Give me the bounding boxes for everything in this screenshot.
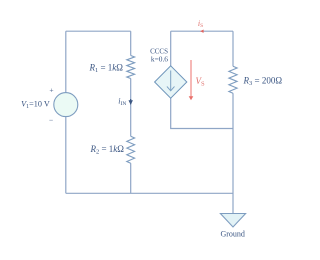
current arrow iIN bbox=[130, 99, 132, 104]
CCCS U1 (diamond dependent source) bbox=[155, 66, 187, 98]
svg-text:k=0.6: k=0.6 bbox=[151, 55, 168, 64]
resistor R1 bbox=[127, 56, 135, 79]
voltage arrow VS (red) bbox=[190, 60, 192, 97]
svg-text:R2 = 1kΩ: R2 = 1kΩ bbox=[89, 144, 124, 156]
wire: top-left horizontal bbox=[66, 30, 131, 32]
wire: left vertical top segment bbox=[65, 31, 67, 92]
wire: CCCS bottom L-segment bbox=[171, 98, 233, 129]
svg-text:iS: iS bbox=[198, 19, 203, 29]
svg-text:+: + bbox=[49, 86, 53, 95]
wire: R1 to R2 middle segment bbox=[130, 79, 132, 137]
wire: R2 bottom stub bbox=[130, 163, 132, 193]
current marker iS (red arrowhead on top wire) bbox=[200, 30, 204, 33]
wire: CCCS top stub bbox=[170, 31, 172, 66]
wire: R3 top stub bbox=[232, 31, 234, 66]
svg-text:iIN: iIN bbox=[118, 97, 126, 108]
wire: top-right horizontal bbox=[171, 30, 233, 32]
wire: left vertical bottom segment bbox=[65, 117, 67, 194]
svg-text:−: − bbox=[49, 116, 53, 125]
svg-text:R1 = 1kΩ: R1 = 1kΩ bbox=[88, 63, 123, 75]
ground bbox=[220, 214, 245, 228]
wire: right vertical segment bbox=[232, 93, 234, 213]
svg-text:VS: VS bbox=[196, 76, 206, 88]
resistor R3 bbox=[229, 66, 237, 93]
svg-text:R3 = 200Ω: R3 = 200Ω bbox=[243, 75, 283, 87]
wire: R1 top stub bbox=[130, 31, 132, 55]
svg-text:V1=10 V: V1=10 V bbox=[21, 99, 50, 110]
CCCS internal arrow bbox=[170, 71, 172, 91]
resistor R2 bbox=[127, 136, 135, 163]
svg-text:Ground: Ground bbox=[220, 230, 244, 239]
voltage source V1 bbox=[54, 93, 78, 117]
wire: bottom horizontal bbox=[66, 192, 233, 194]
